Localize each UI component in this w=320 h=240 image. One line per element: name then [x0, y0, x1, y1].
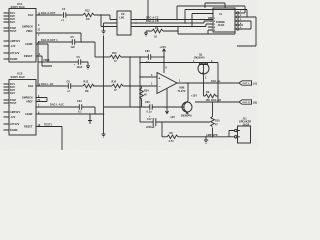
svg-text:-12V: -12V [10, 45, 16, 48]
IC U12 DAC box [9, 80, 36, 136]
U11 left pin stubs [4, 13, 10, 59]
svg-text:1K: 1K [154, 36, 157, 39]
resistor R10 vertical [211, 102, 215, 137]
svg-text:C17: C17 [147, 118, 152, 121]
wire [66, 14, 83, 16]
svg-text:DAC-B-OUT 1: DAC-B-OUT 1 [41, 39, 58, 42]
wire tap down [101, 15, 117, 27]
svg-text:DGND: DGND [10, 58, 18, 61]
svg-text:AGND: AGND [25, 113, 33, 116]
svg-text:+12V: +12V [160, 45, 167, 49]
wire to Q2 base [152, 106, 184, 108]
svg-text:LPF12V: LPF12V [10, 52, 20, 55]
svg-text:TL072: TL072 [178, 89, 186, 93]
svg-text:0.1: 0.1 [78, 111, 82, 114]
top bracket [205, 3, 225, 8]
Q2 collector up [187, 83, 189, 101]
svg-text:R10: R10 [215, 119, 220, 122]
wire [121, 56, 148, 58]
node [103, 85, 105, 87]
vertical x140 [139, 57, 141, 122]
svg-text:DV4: DV4 [10, 92, 16, 95]
wire [71, 85, 83, 87]
svg-text:J1: J1 [219, 12, 223, 16]
svg-text:[A]: [A] [253, 83, 257, 86]
capacitor C83 [148, 54, 150, 60]
wire U11 pin21 L [36, 33, 81, 42]
svg-text:R34: R34 [144, 90, 149, 93]
svg-text:4.74: 4.74 [169, 140, 175, 143]
output net 2 wire [195, 101, 239, 103]
svg-text:OUT R: OUT R [243, 102, 251, 104]
svg-text:R12: R12 [85, 9, 90, 12]
resistor R1 + ground [146, 31, 152, 33]
svg-text:VREF: VREF [26, 30, 33, 33]
svg-text:C5: C5 [71, 36, 75, 39]
bottom wire to speaker [162, 136, 167, 138]
ground [86, 66, 90, 69]
svg-text:R15: R15 [112, 52, 117, 55]
svg-text:TEST: TEST [10, 30, 17, 33]
C17 wire y122 [140, 121, 153, 123]
svg-text:DV4: DV4 [10, 21, 16, 24]
wire DAC-A-OUT y15 [36, 14, 63, 16]
C24 wire [36, 106, 79, 108]
wire DAC-L y86 [36, 85, 68, 87]
node [139, 76, 141, 78]
svg-text:R8: R8 [170, 132, 174, 135]
node [163, 56, 165, 58]
svg-text:TEST: TEST [10, 102, 17, 105]
mid IC right wires [131, 19, 213, 21]
resistor R8 [167, 135, 178, 139]
svg-text:SONY DAC: SONY DAC [11, 5, 25, 9]
svg-text:2N3904A: 2N3904A [181, 115, 192, 118]
J1 left pin arrows [211, 17, 213, 31]
long vertical wire x38 [37, 42, 39, 86]
svg-text:−: − [159, 85, 161, 89]
ground tap [204, 137, 208, 144]
svg-text:AMP12V: AMP12V [10, 40, 20, 43]
svg-text:1M: 1M [85, 90, 89, 93]
svg-text:1uF: 1uF [71, 46, 76, 49]
capacitor C4 [64, 12, 66, 18]
svg-text:C4: C4 [62, 8, 66, 11]
op-amp +in wire [140, 76, 157, 78]
wire [151, 56, 164, 58]
svg-text:AGND: AGND [25, 43, 33, 46]
capacitor C5 [72, 39, 74, 45]
svg-text:JACK: JACK [218, 24, 225, 27]
U12 pin9/21 stubs [36, 98, 47, 102]
Q2 emitter stub [187, 113, 189, 114]
riser B [185, 10, 247, 24]
transistor Q1 [198, 63, 209, 74]
wire to ground [81, 62, 88, 66]
svg-text:SMPBCK: SMPBCK [22, 97, 33, 100]
node [129, 85, 131, 87]
svg-text:C83: C83 [145, 50, 150, 53]
svg-text:DAC-A-CB: DAC-A-CB [146, 20, 159, 23]
svg-text:[B]: [B] [253, 102, 257, 105]
svg-text:VREF: VREF [26, 101, 33, 104]
J1 left pin stubs [208, 18, 211, 34]
svg-text:VREF: VREF [43, 59, 50, 62]
svg-text:R13: R13 [84, 80, 89, 83]
connector J1 [213, 8, 235, 32]
svg-text:LM1: LM1 [120, 16, 126, 19]
svg-text:R9: R9 [206, 91, 210, 94]
capacitor C24 [79, 104, 81, 110]
svg-text:-12V: -12V [10, 116, 16, 119]
svg-text:DAC-L-A1C: DAC-L-A1C [50, 104, 64, 107]
svg-text:-12V: -12V [170, 116, 176, 119]
svg-text:+: + [158, 77, 160, 81]
resistor R34 vertical [140, 86, 144, 107]
svg-text:C6: C6 [77, 56, 81, 59]
svg-text:DAC-A-OUT: DAC-A-OUT [41, 12, 56, 15]
svg-text:DAC-L-AC: DAC-L-AC [41, 83, 54, 86]
-12V arrow [165, 111, 168, 114]
riser C [192, 14, 213, 27]
wire to corner [94, 15, 117, 20]
svg-text:R1: R1 [155, 27, 159, 30]
svg-text:AMP12V: AMP12V [10, 111, 20, 114]
wire VREF y62 [38, 61, 78, 63]
wire [75, 42, 95, 57]
op-amp pin4 down [166, 89, 168, 114]
op-amp U9B [157, 73, 177, 94]
mid IC U2 [117, 11, 131, 35]
ground [102, 31, 106, 34]
capacitor C8 [68, 83, 70, 89]
svg-text:C84: C84 [145, 101, 150, 104]
riser A [177, 6, 245, 20]
svg-text:DAC: DAC [28, 14, 34, 17]
resistor R12 [83, 13, 94, 17]
wire y62.5 to Q1 [140, 62, 218, 64]
IC U11 DAC box [9, 9, 36, 63]
wire [93, 85, 112, 87]
svg-text:TEST1: TEST1 [44, 123, 53, 126]
svg-text:2N2904A: 2N2904A [194, 57, 205, 60]
svg-text:C8: C8 [67, 80, 71, 83]
vertical x137 [129, 57, 131, 107]
wire U11 RESET L [36, 56, 52, 66]
svg-text:RESET: RESET [24, 126, 33, 129]
Q1 emitter to output [203, 74, 205, 83]
svg-text:10uF: 10uF [77, 66, 83, 69]
J1 right wiring [239, 12, 245, 14]
op-amp output wire [177, 82, 239, 84]
resistor R15 [110, 55, 121, 59]
resistor R9 [204, 83, 219, 98]
svg-text:0.1u: 0.1u [147, 111, 153, 114]
svg-text:DAC-AL: DAC-AL [211, 80, 221, 83]
svg-text:OUT L: OUT L [243, 83, 251, 85]
capacitor C17 [153, 118, 156, 126]
rail y107 with C84 [104, 106, 150, 108]
wire y57 mix [95, 56, 110, 58]
svg-text:R16: R16 [112, 81, 117, 84]
vertical x218 [217, 63, 219, 103]
wire U11 pin8 L [36, 44, 48, 62]
top feed vertical [147, 0, 149, 20]
wire [123, 85, 157, 87]
resistor R13 [83, 84, 94, 88]
U12 RESET wire [36, 127, 62, 151]
svg-text:+12V: +12V [191, 95, 197, 98]
svg-text:SONY DAC: SONY DAC [11, 75, 25, 79]
svg-text:LPF12V: LPF12V [10, 123, 20, 126]
node [100, 14, 102, 16]
svg-text:C24: C24 [77, 100, 82, 103]
vertical x104 lower [102, 134, 106, 137]
capacitor C84 [150, 104, 152, 110]
ground tap x90 [88, 114, 92, 124]
AGND wire y114 [36, 113, 104, 115]
svg-text:DAC: DAC [28, 85, 34, 88]
svg-text:1M: 1M [86, 18, 90, 21]
svg-text:RESET: RESET [24, 55, 33, 58]
U12 left pin stubs [4, 84, 10, 130]
svg-text:SMPBCK: SMPBCK [22, 26, 33, 29]
wire DAC-B-OUT y42 [38, 41, 72, 43]
node [139, 56, 141, 58]
svg-text:U12: U12 [17, 71, 23, 75]
svg-text:2200uF: 2200uF [146, 126, 155, 129]
capacitor C6 [78, 59, 80, 65]
svg-text:DGND: DGND [10, 129, 18, 132]
resistor R16 [112, 84, 123, 88]
transistor Q2 [182, 102, 192, 112]
J1 right pins [237, 12, 239, 14]
wire mid pin [104, 23, 118, 31]
